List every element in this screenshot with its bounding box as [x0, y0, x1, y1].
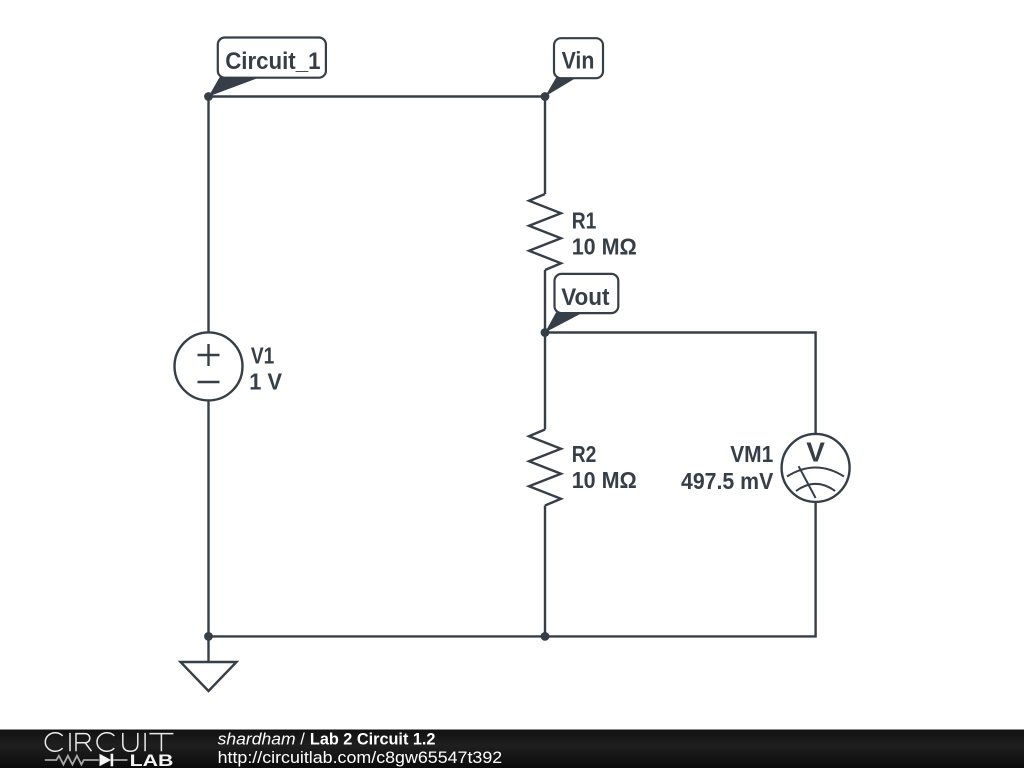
svg-text:/: / — [300, 731, 305, 749]
svg-text:10 MΩ: 10 MΩ — [572, 467, 637, 493]
label R1 designator — [572, 208, 597, 234]
label V1 designator — [251, 342, 275, 368]
label R2 designator — [572, 441, 597, 467]
svg-text:shardham: shardham — [218, 731, 296, 749]
node Vout junction dot — [541, 328, 550, 337]
svg-text:Circuit_1: Circuit_1 — [225, 48, 320, 75]
svg-text:Vout: Vout — [561, 284, 609, 311]
node label Vin — [545, 38, 603, 96]
svg-text:10 MΩ: 10 MΩ — [572, 234, 637, 260]
svg-text:LAB: LAB — [130, 751, 174, 768]
CircuitLab logo wordmark LAB — [130, 751, 174, 768]
node label Vout — [545, 274, 618, 333]
svg-text:V: V — [806, 437, 825, 468]
svg-text:V1: V1 — [251, 342, 275, 368]
node Circuit_1 junction dot — [204, 92, 213, 101]
wire R1 to Vout node — [544, 270, 546, 333]
ground — [181, 636, 237, 691]
svg-text:http://circuitlab.com/c8gw6554: http://circuitlab.com/c8gw65547t392 — [218, 749, 503, 767]
node label Circuit_1 — [209, 38, 326, 97]
node ground-middle junction dot — [541, 632, 550, 641]
CircuitLab logo resistor-diode squiggle — [45, 754, 128, 767]
footer url text — [218, 749, 503, 767]
svg-text:R1: R1 — [572, 208, 597, 234]
voltmeter VM1 — [782, 434, 850, 502]
wire left rail upper (Circuit_1 node to V1 top) — [207, 97, 209, 333]
svg-text:R2: R2 — [572, 441, 597, 467]
resistor R2 — [529, 430, 561, 506]
wire bottom rail and VM1 bottom lead — [209, 502, 816, 637]
svg-text:1 V: 1 V — [249, 369, 282, 395]
wire left rail lower (V1 bottom to ground rail) — [207, 400, 209, 636]
svg-text:VM1: VM1 — [730, 441, 773, 467]
label VM1 designator — [730, 441, 773, 467]
label R1 value 10 MOhm — [572, 234, 637, 260]
label R2 value 10 MOhm — [572, 467, 637, 493]
label V1 value 1 V — [249, 369, 282, 395]
node Vin junction dot — [541, 92, 550, 101]
svg-text:Vin: Vin — [562, 48, 595, 75]
voltage source V1 — [175, 332, 243, 400]
wire top rail (Circuit_1 node to Vin node) — [209, 95, 546, 97]
svg-text:Lab 2 Circuit 1.2: Lab 2 Circuit 1.2 — [310, 731, 436, 749]
wire R2 to bottom rail — [544, 506, 546, 637]
wire Vout node to R2 — [544, 333, 546, 430]
wire Vout rail and VM1 top lead — [545, 333, 816, 435]
footer title text: shardham / Lab 2 Circuit 1.2 — [218, 731, 436, 749]
node ground-left junction dot — [204, 632, 213, 641]
footer bar — [0, 730, 1024, 768]
wire Vin node to R1 — [544, 97, 546, 195]
resistor R1 — [529, 194, 561, 270]
CircuitLab logo wordmark CIRCUIT — [45, 733, 173, 751]
svg-text:497.5 mV: 497.5 mV — [681, 468, 774, 494]
label VM1 reading 497.5 mV — [681, 468, 774, 494]
